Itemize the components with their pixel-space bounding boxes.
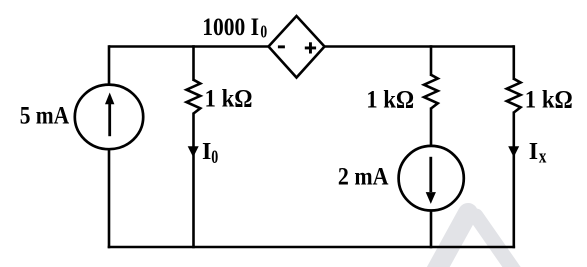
watermark xyxy=(435,213,515,267)
wire: branch 3 middle xyxy=(430,108,433,148)
wire: right branch top xyxy=(512,45,515,80)
current arrow Ix (down, on right branch) xyxy=(508,146,519,157)
plus sign inside diamond xyxy=(305,47,316,50)
svg-text:I: I xyxy=(202,139,211,165)
svg-text:I: I xyxy=(529,139,538,165)
wire: branch 2 top xyxy=(192,45,195,81)
current source 5 mA (circle + up arrow) xyxy=(75,85,143,150)
wire: branch 3 bottom xyxy=(430,210,433,248)
wire: branch 2 bottom xyxy=(192,113,195,249)
wire: bottom rail xyxy=(108,246,515,249)
resistor 1 kOhm (branch 3) xyxy=(424,75,438,109)
svg-text:5 mA: 5 mA xyxy=(20,102,69,129)
svg-text:1 kΩ: 1 kΩ xyxy=(205,85,253,112)
svg-text:0: 0 xyxy=(211,147,218,168)
wire: top right segment (dependent source to right corner) xyxy=(324,45,514,48)
wire: left branch bottom xyxy=(108,149,111,249)
wire: branch 3 top xyxy=(430,45,433,76)
wire: top left segment (left branch to dependent source) xyxy=(109,45,269,48)
resistor 1 kOhm (right branch) xyxy=(507,79,521,113)
svg-text:2 mA: 2 mA xyxy=(338,164,389,191)
svg-text:x: x xyxy=(539,146,547,167)
svg-text:1 kΩ: 1 kΩ xyxy=(525,86,573,113)
svg-text:1000 I: 1000 I xyxy=(202,14,259,41)
current arrow I0 (down, on branch 2) xyxy=(188,146,199,157)
svg-text:0: 0 xyxy=(260,22,267,42)
wire: right branch bottom xyxy=(512,112,515,249)
svg-text:1 kΩ: 1 kΩ xyxy=(366,87,414,114)
resistor 1 kOhm (branch 2) xyxy=(187,80,201,114)
minus sign inside diamond xyxy=(278,45,285,48)
dependent voltage source 1000 I0 (diamond) xyxy=(269,16,325,78)
wire: left branch top xyxy=(108,45,111,85)
current source 2 mA (circle + down arrow) xyxy=(399,146,464,211)
